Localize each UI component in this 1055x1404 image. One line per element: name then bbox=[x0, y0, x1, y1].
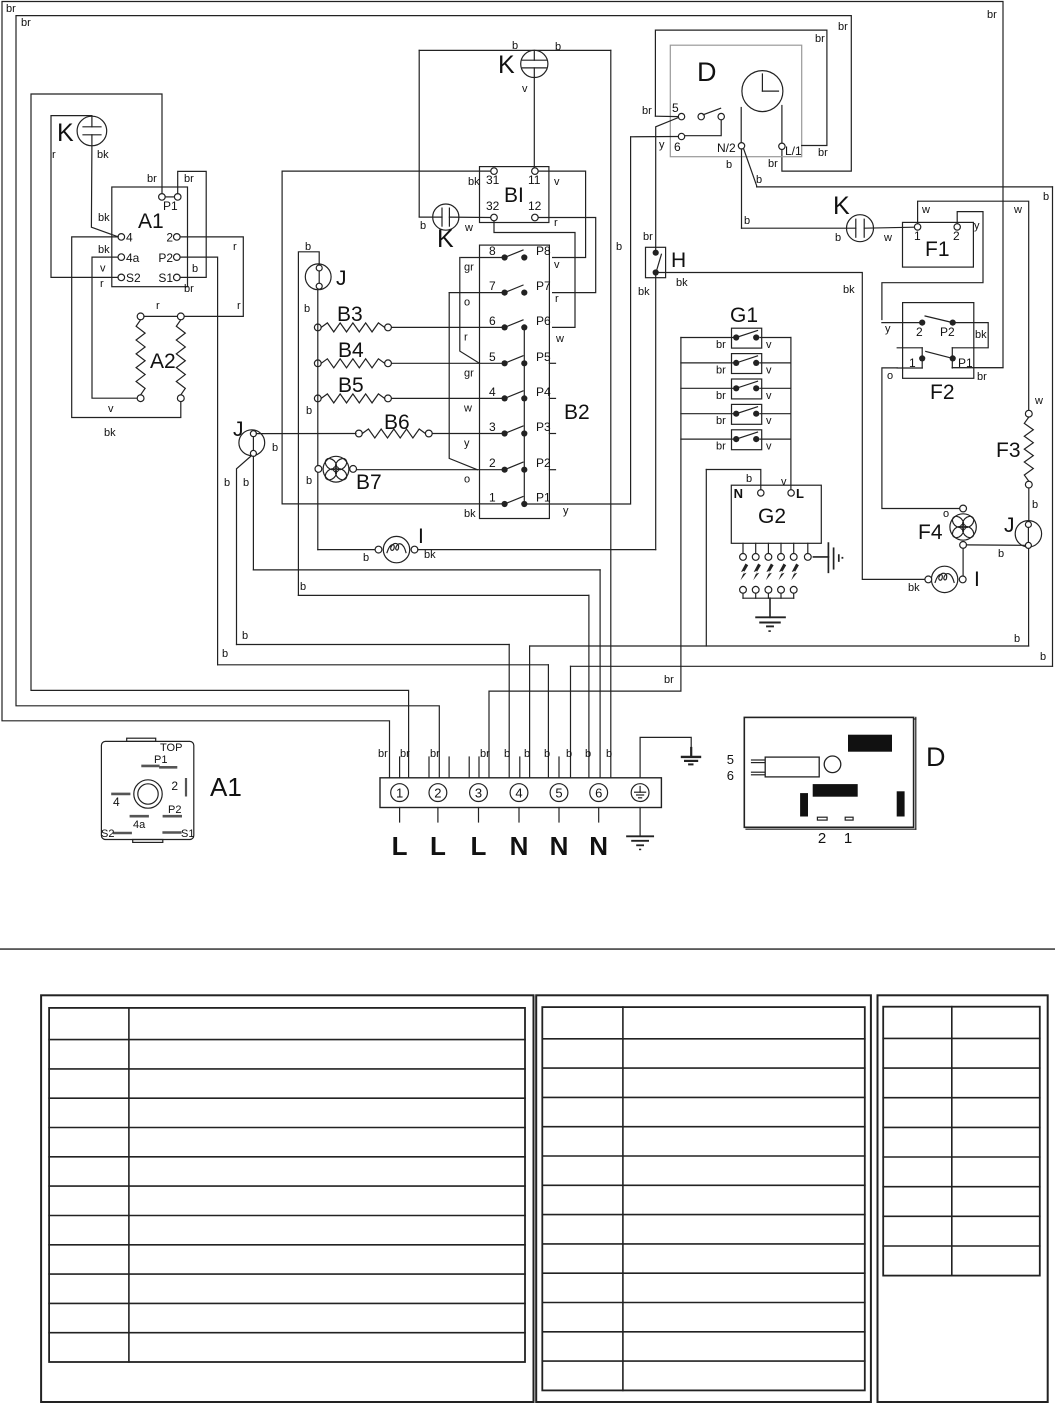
svg-text:N: N bbox=[550, 831, 569, 861]
svg-text:gr: gr bbox=[464, 262, 474, 274]
svg-text:b: b bbox=[606, 748, 612, 760]
svg-text:b: b bbox=[242, 630, 248, 642]
svg-text:2: 2 bbox=[434, 785, 441, 800]
svg-text:G2: G2 bbox=[758, 505, 786, 528]
svg-text:br: br bbox=[643, 231, 653, 243]
svg-text:32: 32 bbox=[486, 199, 500, 213]
svg-text:b: b bbox=[726, 159, 732, 171]
svg-text:b: b bbox=[835, 232, 841, 244]
svg-text:v: v bbox=[766, 415, 772, 427]
svg-text:bk: bk bbox=[424, 549, 436, 561]
svg-text:y: y bbox=[974, 220, 980, 232]
svg-text:bk: bk bbox=[464, 508, 476, 520]
svg-text:br: br bbox=[716, 415, 726, 427]
svg-text:L: L bbox=[392, 831, 408, 861]
svg-text:5: 5 bbox=[672, 101, 679, 115]
svg-text:P1: P1 bbox=[163, 199, 178, 213]
svg-text:I: I bbox=[974, 568, 980, 591]
svg-text:A1: A1 bbox=[138, 210, 164, 233]
svg-text:w: w bbox=[555, 333, 564, 345]
svg-text:r: r bbox=[555, 293, 559, 305]
svg-text:5: 5 bbox=[489, 350, 496, 364]
svg-text:b: b bbox=[544, 748, 550, 760]
svg-text:P1: P1 bbox=[958, 356, 973, 370]
svg-text:L: L bbox=[471, 831, 487, 861]
svg-text:v: v bbox=[766, 339, 772, 351]
svg-text:r: r bbox=[100, 278, 104, 290]
svg-text:J: J bbox=[1004, 514, 1015, 537]
svg-text:5: 5 bbox=[555, 785, 562, 800]
svg-text:bk: bk bbox=[97, 149, 109, 161]
svg-text:P1: P1 bbox=[536, 491, 551, 505]
svg-text:4: 4 bbox=[113, 795, 120, 809]
svg-text:N: N bbox=[589, 831, 608, 861]
svg-text:br: br bbox=[184, 173, 194, 185]
svg-text:b: b bbox=[1040, 651, 1046, 663]
svg-text:bk: bk bbox=[98, 244, 110, 256]
svg-text:b: b bbox=[305, 241, 311, 253]
svg-text:P5: P5 bbox=[536, 350, 551, 364]
svg-text:b: b bbox=[998, 548, 1004, 560]
svg-text:r: r bbox=[156, 300, 160, 312]
svg-text:br: br bbox=[987, 9, 997, 21]
svg-text:y: y bbox=[464, 438, 470, 450]
svg-text:r: r bbox=[464, 331, 468, 343]
svg-text:b: b bbox=[243, 477, 249, 489]
svg-text:o: o bbox=[464, 474, 470, 486]
svg-text:br: br bbox=[480, 748, 490, 760]
svg-text:br: br bbox=[716, 441, 726, 453]
svg-text:bk: bk bbox=[676, 277, 688, 289]
svg-text:o: o bbox=[943, 508, 949, 520]
svg-text:B3: B3 bbox=[337, 303, 363, 326]
svg-text:1: 1 bbox=[489, 491, 496, 505]
svg-text:b: b bbox=[524, 748, 530, 760]
svg-text:3: 3 bbox=[475, 785, 482, 800]
svg-text:y: y bbox=[563, 505, 569, 517]
svg-text:o: o bbox=[464, 297, 470, 309]
svg-text:br: br bbox=[815, 33, 825, 45]
svg-text:b: b bbox=[420, 220, 426, 232]
svg-text:B2: B2 bbox=[564, 401, 590, 424]
svg-text:2: 2 bbox=[489, 456, 496, 470]
svg-text:w: w bbox=[1034, 395, 1043, 407]
svg-text:B4: B4 bbox=[338, 339, 364, 362]
svg-text:12: 12 bbox=[528, 199, 542, 213]
svg-text:2: 2 bbox=[818, 830, 826, 847]
svg-text:P4: P4 bbox=[536, 385, 551, 399]
svg-text:b: b bbox=[1014, 633, 1020, 645]
svg-text:y: y bbox=[659, 139, 665, 151]
svg-text:N: N bbox=[510, 831, 529, 861]
svg-text:4: 4 bbox=[489, 385, 496, 399]
svg-text:v: v bbox=[766, 364, 772, 376]
svg-text:B5: B5 bbox=[338, 374, 364, 397]
svg-text:br: br bbox=[400, 748, 410, 760]
svg-text:P2: P2 bbox=[536, 456, 551, 470]
svg-text:br: br bbox=[818, 147, 828, 159]
svg-text:w: w bbox=[883, 232, 892, 244]
svg-text:1: 1 bbox=[914, 229, 921, 243]
svg-text:br: br bbox=[977, 371, 987, 383]
svg-text:P7: P7 bbox=[536, 279, 551, 293]
svg-text:31: 31 bbox=[486, 173, 500, 187]
svg-text:r: r bbox=[233, 241, 237, 253]
svg-text:bk: bk bbox=[104, 427, 116, 439]
svg-text:S2: S2 bbox=[101, 828, 114, 840]
svg-text:F1: F1 bbox=[925, 238, 950, 261]
svg-text:w: w bbox=[463, 402, 472, 414]
svg-text:br: br bbox=[838, 21, 848, 33]
svg-text:S1: S1 bbox=[158, 271, 173, 285]
svg-text:K: K bbox=[498, 51, 515, 79]
svg-text:br: br bbox=[716, 339, 726, 351]
svg-text:B7: B7 bbox=[356, 471, 382, 494]
svg-text:br: br bbox=[6, 3, 16, 15]
svg-text:br: br bbox=[147, 173, 157, 185]
svg-text:br: br bbox=[716, 390, 726, 402]
svg-text:8: 8 bbox=[489, 244, 496, 258]
svg-text:b: b bbox=[616, 241, 622, 253]
svg-text:2: 2 bbox=[953, 229, 960, 243]
svg-text:2: 2 bbox=[171, 779, 178, 793]
svg-text:G1: G1 bbox=[730, 304, 758, 327]
svg-text:b: b bbox=[300, 581, 306, 593]
svg-text:1: 1 bbox=[909, 356, 916, 370]
svg-text:b: b bbox=[304, 303, 310, 315]
svg-text:w: w bbox=[1013, 204, 1022, 216]
svg-text:b: b bbox=[192, 263, 198, 275]
svg-text:br: br bbox=[184, 283, 194, 295]
svg-text:P2: P2 bbox=[940, 325, 955, 339]
svg-text:v: v bbox=[781, 476, 787, 488]
svg-text:5: 5 bbox=[727, 752, 734, 767]
svg-text:gr: gr bbox=[464, 367, 474, 379]
svg-text:b: b bbox=[1043, 191, 1049, 203]
svg-text:K: K bbox=[833, 192, 850, 220]
svg-text:b: b bbox=[306, 475, 312, 487]
svg-text:P1: P1 bbox=[154, 754, 167, 766]
svg-text:P2: P2 bbox=[168, 804, 181, 816]
svg-text:w: w bbox=[921, 204, 930, 216]
svg-text:v: v bbox=[108, 403, 114, 415]
svg-text:b: b bbox=[504, 748, 510, 760]
svg-text:4: 4 bbox=[515, 785, 522, 800]
svg-text:F3: F3 bbox=[996, 439, 1021, 462]
svg-text:4: 4 bbox=[126, 231, 133, 245]
svg-text:y: y bbox=[885, 323, 891, 335]
svg-text:6: 6 bbox=[727, 768, 734, 783]
svg-text:A2: A2 bbox=[150, 350, 176, 373]
svg-text:br: br bbox=[768, 158, 778, 170]
svg-text:11: 11 bbox=[528, 173, 541, 187]
svg-text:b: b bbox=[272, 442, 278, 454]
svg-text:4a: 4a bbox=[133, 819, 146, 831]
svg-text:3: 3 bbox=[489, 420, 496, 434]
svg-text:K: K bbox=[437, 225, 454, 253]
svg-text:bk: bk bbox=[638, 286, 650, 298]
svg-text:b: b bbox=[744, 215, 750, 227]
svg-text:bk: bk bbox=[908, 582, 920, 594]
svg-text:bk: bk bbox=[843, 284, 855, 296]
svg-text:v: v bbox=[554, 259, 560, 271]
svg-text:B6: B6 bbox=[384, 411, 410, 434]
svg-text:2: 2 bbox=[166, 231, 173, 245]
svg-text:b: b bbox=[306, 405, 312, 417]
svg-text:br: br bbox=[664, 674, 674, 686]
svg-text:6: 6 bbox=[595, 785, 602, 800]
svg-text:bk: bk bbox=[98, 212, 110, 224]
svg-text:L/1: L/1 bbox=[785, 144, 802, 158]
svg-text:b: b bbox=[1032, 499, 1038, 511]
svg-text:b: b bbox=[224, 477, 230, 489]
svg-text:P8: P8 bbox=[536, 244, 551, 258]
svg-text:b: b bbox=[756, 174, 762, 186]
svg-text:TOP: TOP bbox=[160, 742, 182, 754]
svg-text:L: L bbox=[796, 486, 804, 501]
svg-text:F2: F2 bbox=[930, 381, 955, 404]
svg-text:P2: P2 bbox=[158, 251, 173, 265]
svg-text:r: r bbox=[554, 217, 558, 229]
svg-text:w: w bbox=[464, 222, 473, 234]
svg-text:J: J bbox=[336, 267, 347, 290]
svg-text:b: b bbox=[363, 552, 369, 564]
svg-text:bk: bk bbox=[975, 329, 987, 341]
svg-text:N: N bbox=[734, 486, 743, 501]
svg-text:br: br bbox=[642, 105, 652, 117]
svg-text:S1: S1 bbox=[181, 828, 194, 840]
svg-text:A1: A1 bbox=[210, 772, 242, 802]
svg-text:L: L bbox=[430, 831, 446, 861]
svg-text:D: D bbox=[697, 57, 717, 87]
svg-text:o: o bbox=[887, 370, 893, 382]
svg-text:6: 6 bbox=[489, 314, 496, 328]
svg-text:P6: P6 bbox=[536, 314, 551, 328]
svg-text:F4: F4 bbox=[918, 521, 943, 544]
svg-text:b: b bbox=[566, 748, 572, 760]
svg-text:1: 1 bbox=[844, 830, 852, 847]
svg-text:v: v bbox=[522, 83, 528, 95]
svg-text:6: 6 bbox=[674, 140, 681, 154]
svg-text:br: br bbox=[430, 748, 440, 760]
svg-text:b: b bbox=[585, 748, 591, 760]
svg-text:S2: S2 bbox=[126, 271, 141, 285]
svg-text:br: br bbox=[716, 364, 726, 376]
svg-text:v: v bbox=[766, 441, 772, 453]
svg-text:I: I bbox=[418, 525, 424, 548]
svg-text:r: r bbox=[52, 149, 56, 161]
svg-text:7: 7 bbox=[489, 279, 496, 293]
svg-text:br: br bbox=[21, 17, 31, 29]
svg-text:K: K bbox=[57, 119, 74, 147]
svg-text:N/2: N/2 bbox=[717, 141, 736, 155]
svg-text:r: r bbox=[237, 300, 241, 312]
svg-text:bk: bk bbox=[468, 176, 480, 188]
svg-text:b: b bbox=[746, 473, 752, 485]
svg-text:J: J bbox=[233, 418, 244, 441]
svg-text:P3: P3 bbox=[536, 420, 551, 434]
svg-text:1: 1 bbox=[396, 785, 403, 800]
svg-text:H: H bbox=[671, 249, 686, 272]
svg-text:v: v bbox=[554, 176, 560, 188]
svg-text:b: b bbox=[555, 41, 561, 53]
svg-text:BI: BI bbox=[504, 184, 524, 207]
svg-text:D: D bbox=[926, 742, 946, 772]
svg-text:br: br bbox=[378, 748, 388, 760]
svg-text:v: v bbox=[766, 390, 772, 402]
svg-text:2: 2 bbox=[916, 325, 923, 339]
svg-text:b: b bbox=[222, 648, 228, 660]
svg-text:4a: 4a bbox=[126, 251, 140, 265]
svg-text:v: v bbox=[100, 263, 106, 275]
